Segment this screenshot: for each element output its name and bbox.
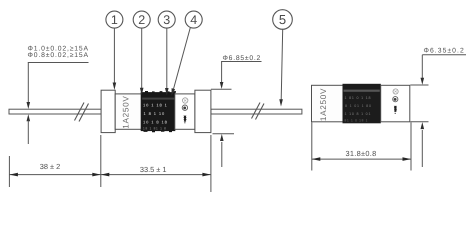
svg-text:5: 5 — [279, 12, 286, 27]
leader line 5 — [281, 29, 283, 100]
break symbol on right lead — [252, 103, 265, 120]
callout balloon 1 — [106, 11, 123, 28]
left end cap — [101, 90, 115, 132]
svg-text:1A250V: 1A250V — [319, 88, 328, 121]
svg-text:1: 1 — [111, 13, 118, 27]
rating band 1A250V (left view) — [115, 94, 142, 129]
dimension Φ6.35±0.2 — [410, 55, 466, 167]
svg-text:Φ6.35±0.2: Φ6.35±0.2 — [424, 48, 465, 55]
right view rating band 1A250V — [312, 85, 344, 122]
svg-text:10 1 8 18: 10 1 8 18 — [143, 120, 168, 125]
svg-text:31.8±0.8: 31.8±0.8 — [345, 149, 376, 158]
leader line 3 — [166, 28, 168, 88]
lead diameter dimension line upper — [27, 63, 29, 103]
svg-text:1A250V: 1A250V — [122, 95, 131, 128]
svg-text:4: 4 — [190, 13, 197, 27]
approval-marks strip (left view) — [175, 94, 195, 129]
right end cap — [195, 90, 211, 132]
dimension 38±2 — [9, 135, 100, 187]
svg-text:3: 3 — [163, 13, 170, 27]
marking band (left view) — [141, 91, 176, 132]
dimension 33.5±1 — [101, 135, 211, 192]
svg-text:33.5 ± 1: 33.5 ± 1 — [140, 165, 167, 174]
callout balloon 4 — [185, 11, 202, 28]
svg-text:Φ0.8±0.02,≥15A: Φ0.8±0.02,≥15A — [28, 52, 89, 59]
svg-text:81 1 0 18 1: 81 1 0 18 1 — [345, 119, 369, 123]
leader line 4 — [174, 28, 191, 89]
leader line 1 — [113, 28, 115, 83]
svg-text:10 1 18 1: 10 1 18 1 — [143, 103, 168, 108]
svg-text:1 8 1 10: 1 8 1 10 — [144, 111, 166, 116]
svg-text:18 1 81 1 8: 18 1 81 1 8 — [143, 127, 167, 131]
right view approval-marks strip — [381, 85, 410, 122]
callout balloon 2 — [133, 11, 150, 28]
dimension Φ6.85±0.2 — [211, 62, 262, 168]
lead diameter note — [28, 46, 89, 60]
svg-text:38 ± 2: 38 ± 2 — [40, 162, 61, 171]
left lead wire — [9, 109, 101, 114]
lead diameter leader underline — [28, 62, 89, 64]
break symbol on left lead — [75, 103, 89, 122]
right lead wire — [211, 109, 302, 114]
lead diameter dimension line lower — [27, 114, 31, 121]
leader line 2 — [141, 28, 143, 88]
svg-text:8 1 01 1 80: 8 1 01 1 80 — [345, 104, 372, 108]
callout balloon 3 — [158, 11, 175, 28]
svg-text:2: 2 — [138, 13, 145, 27]
callout balloon 5 — [273, 10, 293, 30]
svg-text:1 81 0 1 18: 1 81 0 1 18 — [345, 96, 372, 100]
svg-text:1 10 8 1 01: 1 10 8 1 01 — [345, 112, 372, 116]
right view marking band — [343, 84, 380, 123]
dimension 31.8±0.8 — [312, 122, 411, 170]
svg-text:Φ6.85±0.2: Φ6.85±0.2 — [223, 55, 262, 62]
